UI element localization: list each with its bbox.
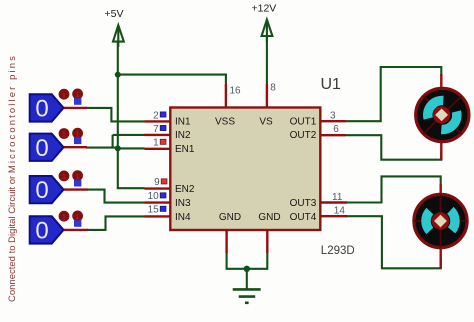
logic state LS3 toggle button B — [72, 170, 83, 181]
wire OUT1 to motor M1 top — [345, 67, 442, 121]
svg-text:1: 1 — [76, 212, 80, 221]
wire OUT4 to motor M2 bottom — [346, 216, 441, 268]
svg-text:EN2: EN2 — [175, 184, 195, 195]
logic state LS2 — [30, 128, 87, 162]
motor M1 spokes — [424, 96, 462, 134]
motor M1 rotor arc A — [428, 100, 444, 118]
wire LS4 to IN4 — [87, 216, 145, 230]
svg-text:+5V: +5V — [105, 8, 124, 20]
svg-text:OUT3: OUT3 — [290, 198, 317, 209]
wire LS2 to IN2 — [113, 134, 145, 136]
ground symbol — [233, 289, 261, 302]
motor M1 shaft diamond — [435, 109, 448, 122]
svg-text:1: 1 — [76, 172, 80, 181]
svg-text:16: 16 — [230, 86, 242, 97]
pin stub IN3 pin10 — [145, 201, 171, 203]
svg-text:0: 0 — [35, 135, 48, 162]
svg-text:0: 0 — [35, 218, 48, 245]
svg-text:Connected to Digital Circuit o: Connected to Digital Circuit or Microcon… — [7, 56, 18, 302]
svg-text:IN2: IN2 — [175, 130, 191, 141]
logic state LS1 toggle button B — [72, 89, 83, 100]
wire LS3 to IN3 — [87, 190, 145, 203]
junction +5V/VSS — [115, 72, 121, 78]
svg-text:0: 0 — [35, 96, 48, 123]
wire OUT3 to motor M2 top — [346, 176, 441, 202]
svg-text:+12V: +12V — [252, 3, 277, 15]
svg-text:IN3: IN3 — [175, 198, 191, 209]
logic state LS4 state square — [74, 220, 81, 227]
pin stub IN2 pin7 — [145, 134, 171, 136]
wire EN1 from rail — [118, 147, 145, 149]
svg-text:VS: VS — [259, 117, 273, 128]
wire EN2 from rail — [118, 186, 145, 189]
svg-text:8: 8 — [270, 83, 276, 94]
motor M1 hub disc — [433, 106, 450, 123]
svg-text:OUT1: OUT1 — [290, 117, 317, 128]
logic state LS4 toggle button A — [59, 211, 70, 222]
svg-text:GND: GND — [258, 212, 280, 223]
svg-text:11: 11 — [332, 192, 343, 203]
motor M2 hub disc — [432, 212, 449, 229]
motor M2 body — [414, 194, 467, 247]
motor M2 rotor arc B — [450, 210, 455, 230]
svg-text:14: 14 — [334, 205, 346, 216]
motor M2 terminal stub top — [440, 184, 442, 196]
motor M2 — [414, 184, 467, 269]
svg-text:L293D: L293D — [321, 245, 355, 257]
pin stub OUT2 pin6 — [320, 134, 345, 136]
pin state indicator IN2 blue — [160, 125, 166, 130]
svg-text:1: 1 — [62, 90, 66, 99]
svg-text:15: 15 — [148, 205, 160, 216]
motor M2 rotor arc A — [426, 211, 430, 231]
svg-text:OUT4: OUT4 — [290, 212, 317, 223]
pin state indicator IN1 blue — [160, 112, 166, 117]
logic state LS4 — [30, 211, 88, 245]
wire +5V to VSS pin16 — [118, 75, 226, 84]
wire OUT2 to motor M1 bottom — [345, 135, 442, 160]
pin stub GND right — [266, 230, 268, 254]
pin state indicator EN2 red — [161, 179, 167, 184]
wire LS3 output stub — [64, 188, 89, 190]
pin stub IN4 pin15 — [145, 215, 171, 217]
logic state LS2 toggle button B — [72, 128, 83, 139]
svg-text:U1: U1 — [321, 76, 342, 93]
pin stub VSS pin16 — [225, 84, 227, 108]
pin stub IN1 pin2 — [145, 120, 171, 122]
logic state LS2 toggle button A — [59, 128, 70, 139]
IC U1 L293D motor driver body — [170, 108, 320, 231]
svg-text:1: 1 — [153, 138, 159, 149]
logic state LS1 state square — [74, 98, 81, 105]
pin stub OUT1 pin3 — [320, 120, 345, 122]
svg-text:GND: GND — [219, 212, 241, 223]
svg-text:IN1: IN1 — [175, 117, 191, 128]
svg-text:10: 10 — [148, 191, 160, 202]
logic state LS3 toggle button A — [59, 171, 70, 182]
svg-text:1: 1 — [62, 130, 66, 139]
wire +5V rail vertical — [117, 42, 119, 188]
wire LS1 to IN1 — [86, 108, 145, 122]
pin stub EN2 pin9 — [145, 187, 171, 189]
power +12V arrow symbol — [262, 20, 273, 42]
logic state LS4 toggle button B — [72, 211, 83, 222]
svg-text:0: 0 — [35, 177, 48, 204]
power +5V arrow symbol — [113, 25, 124, 47]
svg-text:2: 2 — [153, 110, 159, 121]
wire LS4 output stub — [64, 229, 89, 231]
logic state LS3 pentagon body — [30, 176, 64, 203]
svg-text:EN1: EN1 — [175, 144, 195, 155]
motor M1 terminal stub top — [440, 74, 442, 88]
logic state LS1 — [30, 89, 87, 123]
wire LS1 output stub — [64, 107, 88, 109]
svg-text:7: 7 — [153, 124, 159, 135]
motor M1 terminal stub bottom — [440, 142, 442, 160]
motor M2 spokes — [414, 194, 467, 247]
svg-text:1: 1 — [62, 212, 66, 221]
logic state LS2 state square — [74, 138, 81, 145]
svg-text:1: 1 — [62, 172, 66, 181]
pin stub EN1 pin1 — [145, 148, 171, 150]
logic state LS4 pentagon body — [30, 216, 64, 243]
junction +5V/EN1 — [115, 145, 121, 151]
svg-text:OUT2: OUT2 — [290, 130, 317, 141]
pin stub OUT4 pin14 — [320, 215, 347, 217]
pin stub OUT3 pin11 — [320, 201, 347, 203]
svg-text:9: 9 — [154, 177, 160, 188]
motor M1 body — [416, 88, 469, 141]
wire GND pins to ground — [227, 252, 268, 269]
motor M2 terminal stub bottom — [440, 247, 442, 269]
logic state LS3 state square — [74, 180, 81, 187]
motor M1 — [416, 74, 469, 160]
junction ground node — [244, 266, 250, 272]
wire +12V stem to VS — [266, 36, 268, 84]
logic state LS1 pentagon body — [30, 94, 64, 121]
svg-text:6: 6 — [333, 124, 339, 135]
logic state LS2 pentagon body — [30, 134, 64, 161]
svg-text:1: 1 — [76, 129, 80, 138]
svg-text:VSS: VSS — [215, 117, 235, 128]
wire ground stem — [246, 269, 248, 289]
svg-text:3: 3 — [330, 111, 336, 122]
wire LS2 output stub — [64, 146, 88, 148]
svg-text:IN4: IN4 — [175, 212, 191, 223]
pin state indicator IN4 blue — [160, 206, 166, 211]
motor M2 shaft diamond — [434, 215, 447, 228]
logic state LS1 toggle button A — [59, 89, 70, 100]
pin state indicator IN3 blue — [160, 193, 166, 198]
pin state indicator EN1 red — [160, 139, 166, 144]
logic state LS3 — [30, 170, 88, 204]
pin stub VS pin8 — [266, 84, 268, 108]
pin stub GND left — [225, 230, 227, 254]
motor M1 rotor arc B — [441, 112, 457, 130]
svg-text:1: 1 — [76, 90, 80, 99]
